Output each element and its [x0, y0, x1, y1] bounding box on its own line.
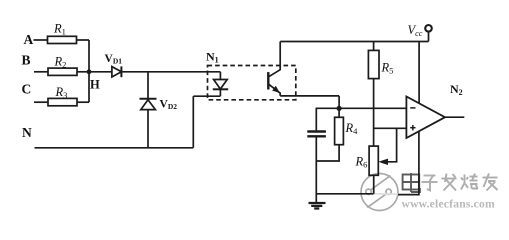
optocoupler N1 dashed box [208, 66, 296, 100]
Vcc terminal [428, 32, 430, 42]
resistor R3 [48, 98, 77, 105]
char zi [422, 176, 438, 191]
wire A to R1 [34, 39, 48, 41]
op-amp plus sign [410, 125, 415, 130]
svg-text:H: H [90, 78, 100, 92]
svg-text:R3: R3 [55, 85, 68, 100]
op-amp N2 triangle [406, 97, 445, 139]
bottom rail to R6 [316, 193, 373, 195]
wire R2 to bus [77, 71, 89, 73]
resistor R2 [48, 68, 77, 75]
phototransistor collector [269, 42, 280, 77]
junction dot H [87, 69, 92, 74]
wiper drop [382, 128, 397, 162]
ground symbol [309, 203, 326, 209]
minus node line [316, 107, 407, 109]
phototransistor emitter [269, 84, 280, 96]
N line [35, 147, 194, 149]
LED cathode return wire [192, 96, 194, 148]
top rail [280, 41, 428, 43]
emitter arrowhead [272, 86, 280, 93]
junction dot minus node [337, 106, 342, 111]
LED anode drop [219, 72, 221, 80]
wire C to R3 [34, 101, 48, 103]
diode VD2 (pointing up) [140, 98, 157, 100]
faint rail under watermark [374, 193, 398, 195]
char you [483, 174, 498, 191]
op-amp V- pin wire [398, 131, 419, 194]
watermark logo circle [361, 174, 398, 211]
svg-text:N2: N2 [450, 82, 463, 97]
wire B to R2 [34, 71, 48, 73]
resistor R5 [373, 42, 375, 51]
svg-text:R1: R1 [53, 22, 66, 37]
op-amp supply wire [418, 42, 420, 104]
svg-text:www.elecfans.com: www.elecfans.com [402, 198, 495, 211]
char dian (darker) [403, 173, 420, 192]
plus node line [374, 127, 407, 129]
capacitor C lead [315, 108, 317, 130]
char shao [461, 174, 478, 190]
svg-text:Vcc: Vcc [408, 23, 423, 38]
emitter wire [280, 95, 339, 97]
svg-text:B: B [22, 53, 31, 68]
wire VD1 to LED drop [121, 71, 220, 73]
svg-text:R4: R4 [345, 121, 359, 136]
bus vertical wire [88, 40, 90, 102]
op-amp minus sign [410, 107, 415, 109]
svg-text:C: C [22, 82, 32, 97]
svg-text:R5: R5 [381, 61, 394, 76]
op-amp output wire [445, 116, 464, 118]
svg-text:R6: R6 [355, 155, 368, 170]
char fa [442, 174, 457, 191]
svg-text:VD1: VD1 [105, 53, 123, 66]
resistor R6 [369, 146, 378, 175]
svg-text:VD2: VD2 [160, 99, 178, 112]
wire R1 to bus [77, 39, 90, 41]
svg-text:R2: R2 [54, 55, 67, 70]
svg-text:N: N [22, 125, 32, 140]
wire R3 to bus [77, 101, 89, 103]
svg-text:A: A [24, 32, 34, 47]
wiper arrowhead [378, 159, 388, 165]
resistor R1 [48, 36, 77, 43]
diode VD1 [112, 67, 122, 77]
diode VD2 branch wire [147, 72, 149, 99]
capacitor C plates [307, 130, 326, 132]
watermark chinese text 电子发烧友 (approximated strokes) [403, 173, 498, 192]
svg-text:N1: N1 [206, 50, 219, 65]
optocoupler LED [214, 80, 228, 90]
wire node H to VD1 [89, 71, 112, 73]
phototransistor base bar [267, 72, 269, 89]
resistor R4 [338, 108, 340, 117]
